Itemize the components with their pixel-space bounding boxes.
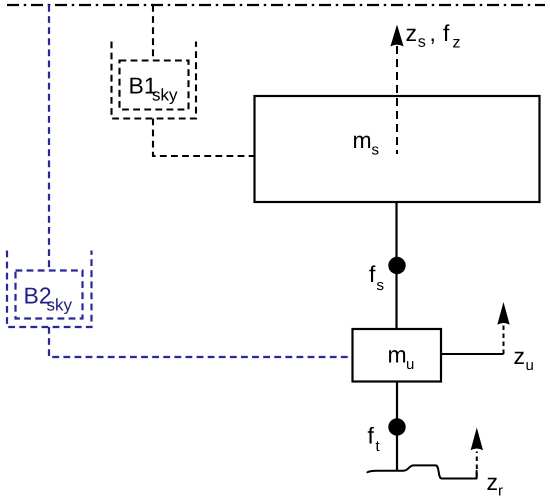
label zu [514, 352, 532, 370]
label B2sky [25, 287, 72, 314]
label B1sky [130, 78, 177, 104]
wire B1 to sprung mass [153, 119, 255, 157]
damper B2sky cylinder [7, 251, 92, 328]
wire zu horizontal [441, 353, 504, 355]
wire B2 to unsprung mass [49, 327, 351, 357]
label ms [354, 136, 379, 155]
damper B2sky rod to sky [48, 5, 50, 271]
wire ms to mu [395, 202, 397, 329]
damper B1sky piston [120, 61, 189, 110]
wire zs dashed axis [396, 46, 398, 154]
node ft [388, 418, 405, 435]
label zs , fz [406, 24, 459, 47]
sprung mass ms [255, 96, 540, 202]
sky reference line [7, 4, 545, 6]
arrow zr [471, 428, 483, 451]
wire zu dashed [503, 325, 505, 355]
arrow zu [497, 302, 509, 325]
damper B1sky cylinder [112, 42, 197, 119]
node fs [388, 257, 405, 274]
label ft [368, 427, 380, 451]
label mu [389, 350, 413, 369]
wire mu to road [396, 382, 398, 472]
wire B1 rod to sky [152, 5, 154, 61]
wire zr dashed [476, 452, 478, 478]
label fs [369, 265, 383, 290]
label zr [487, 478, 502, 496]
unsprung mass mu [353, 329, 442, 382]
arrow zs [390, 25, 403, 47]
road profile [368, 465, 477, 478]
damper B2sky piston [16, 271, 83, 319]
